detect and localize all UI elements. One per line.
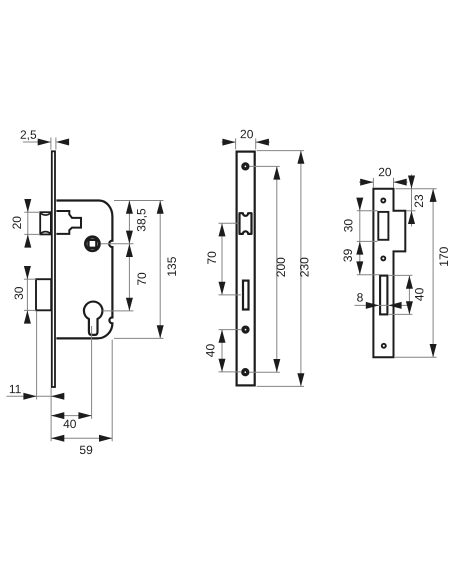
svg-text:170: 170: [437, 246, 451, 266]
svg-text:30: 30: [12, 286, 26, 300]
svg-text:39: 39: [341, 248, 355, 262]
svg-text:70: 70: [135, 272, 149, 286]
svg-text:20: 20: [240, 127, 254, 141]
svg-text:20: 20: [10, 216, 24, 230]
svg-text:70: 70: [205, 251, 219, 265]
svg-text:11: 11: [9, 382, 22, 396]
svg-text:23: 23: [412, 194, 426, 208]
svg-text:8: 8: [357, 290, 364, 304]
svg-text:200: 200: [274, 257, 288, 277]
svg-text:38,5: 38,5: [135, 208, 149, 232]
svg-text:59: 59: [79, 443, 93, 457]
svg-text:230: 230: [297, 257, 311, 277]
svg-text:20: 20: [378, 165, 392, 179]
svg-text:40: 40: [63, 417, 77, 431]
svg-text:2,5: 2,5: [20, 128, 37, 142]
svg-text:40: 40: [413, 287, 427, 301]
svg-text:30: 30: [342, 219, 356, 233]
svg-text:135: 135: [165, 256, 179, 276]
svg-text:40: 40: [204, 344, 218, 358]
